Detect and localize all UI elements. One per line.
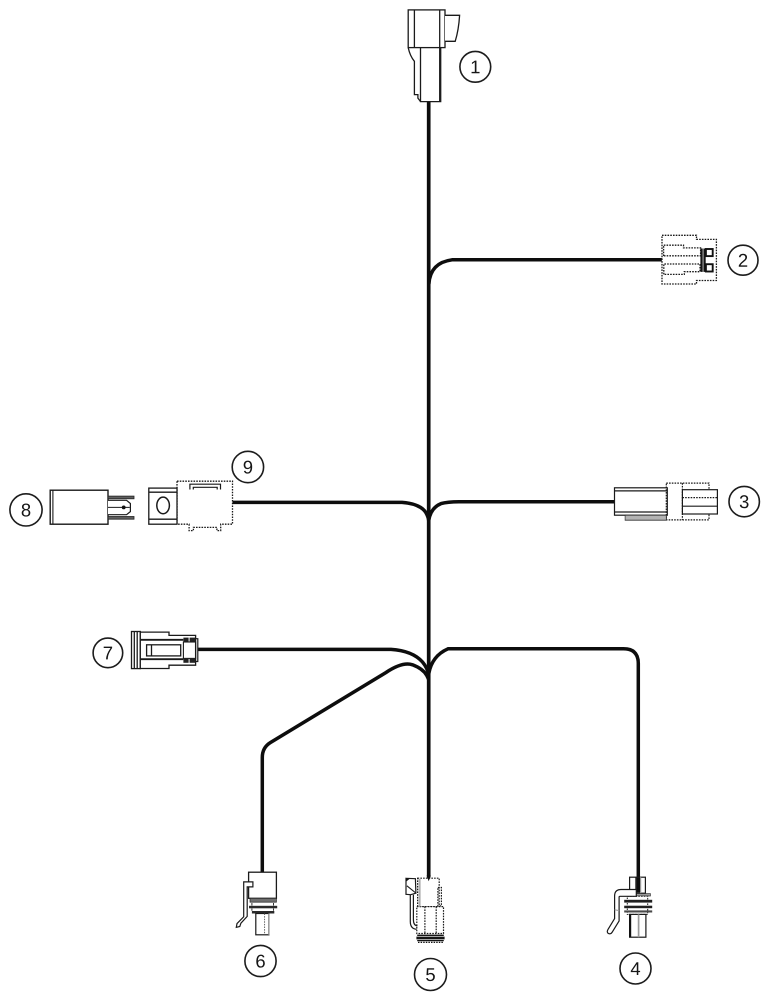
callout circle 4 (620, 953, 651, 984)
connector 1 body (408, 10, 459, 102)
connector 6 clip (236, 882, 253, 927)
connector 7 body (132, 632, 198, 669)
connector 4 clip (607, 890, 636, 934)
wire: branch to connector 3 (right mid) (429, 502, 615, 521)
connector 5 clip (406, 878, 417, 929)
connector 3 hatched strip (625, 515, 666, 520)
callout circle 3 (729, 486, 759, 516)
callout circle 9 (232, 451, 263, 482)
callout circle 7 (93, 638, 123, 668)
connector 4 banded body (624, 896, 652, 914)
connector 8 pins (108, 496, 134, 519)
wire: branch to connector 9 (left mid) (233, 502, 429, 520)
connector 7 dark lugs (183, 638, 195, 663)
callout circle 2 (728, 245, 758, 275)
wire: branch to connector 4 (429, 649, 639, 893)
connector 3 body (615, 483, 718, 520)
connector 2 body (662, 235, 716, 284)
connector 9 body (149, 481, 233, 530)
wire: branch to connector 7 (198, 649, 429, 674)
wire: branch to connector 2 (429, 260, 662, 284)
connector 2 terminal bars (700, 249, 712, 272)
connector 6 body (249, 872, 278, 935)
connector 5 body (417, 878, 444, 933)
connector 5 arrowhead (427, 876, 431, 882)
connector 8 body (50, 490, 108, 524)
callout circle 1 (460, 51, 491, 82)
wire: branch to connector 6 (262, 664, 428, 873)
callout circle 5 (415, 959, 447, 991)
connector 4 top sleeves (630, 877, 646, 893)
wire: main vertical trunk (427, 101, 431, 878)
connector 4 stem (630, 914, 646, 937)
connector 4 hatch collar (629, 894, 650, 896)
connector 5 rings (416, 935, 444, 942)
callout circle 8 (10, 494, 42, 526)
callout circle 6 (245, 945, 276, 976)
